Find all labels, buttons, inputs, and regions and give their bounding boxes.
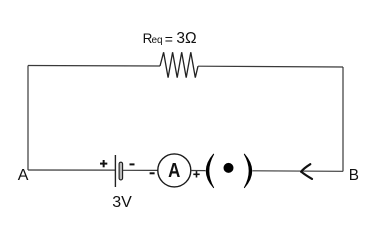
ammeter U1 circle — [158, 154, 191, 187]
current direction arrow — [301, 164, 312, 179]
svg-text:3Ω: 3Ω — [176, 30, 196, 47]
svg-text:B: B — [349, 167, 359, 184]
battery plus sign — [100, 160, 107, 167]
battery B1 short plate — [119, 162, 123, 180]
wire top-left segment — [28, 65, 160, 68]
svg-text:eq: eq — [152, 35, 163, 46]
wire right vertical — [342, 67, 344, 171]
wire lamp to B — [253, 170, 344, 173]
ammeter plus sign — [193, 171, 199, 177]
wire left vertical — [27, 66, 29, 171]
lamp DS1 right parenthesis — [244, 154, 251, 187]
ammeter minus sign — [150, 172, 155, 174]
resistor Req zigzag — [160, 52, 198, 77]
wire bottom-left segment (A to battery) — [28, 169, 115, 171]
wire battery to ammeter — [123, 169, 158, 171]
lamp DS1 filament dot — [224, 163, 234, 173]
battery B1 long plate — [114, 155, 116, 187]
svg-text:A: A — [168, 159, 180, 182]
svg-text:A: A — [18, 167, 29, 184]
lamp DS1 left parenthesis — [206, 154, 213, 187]
wire ammeter to lamp — [191, 170, 206, 172]
svg-text:=: = — [165, 31, 173, 47]
label Req = 3ohm — [143, 30, 197, 47]
svg-text:3V: 3V — [112, 194, 132, 211]
wire top-right segment — [198, 65, 343, 68]
battery minus sign — [130, 163, 135, 165]
